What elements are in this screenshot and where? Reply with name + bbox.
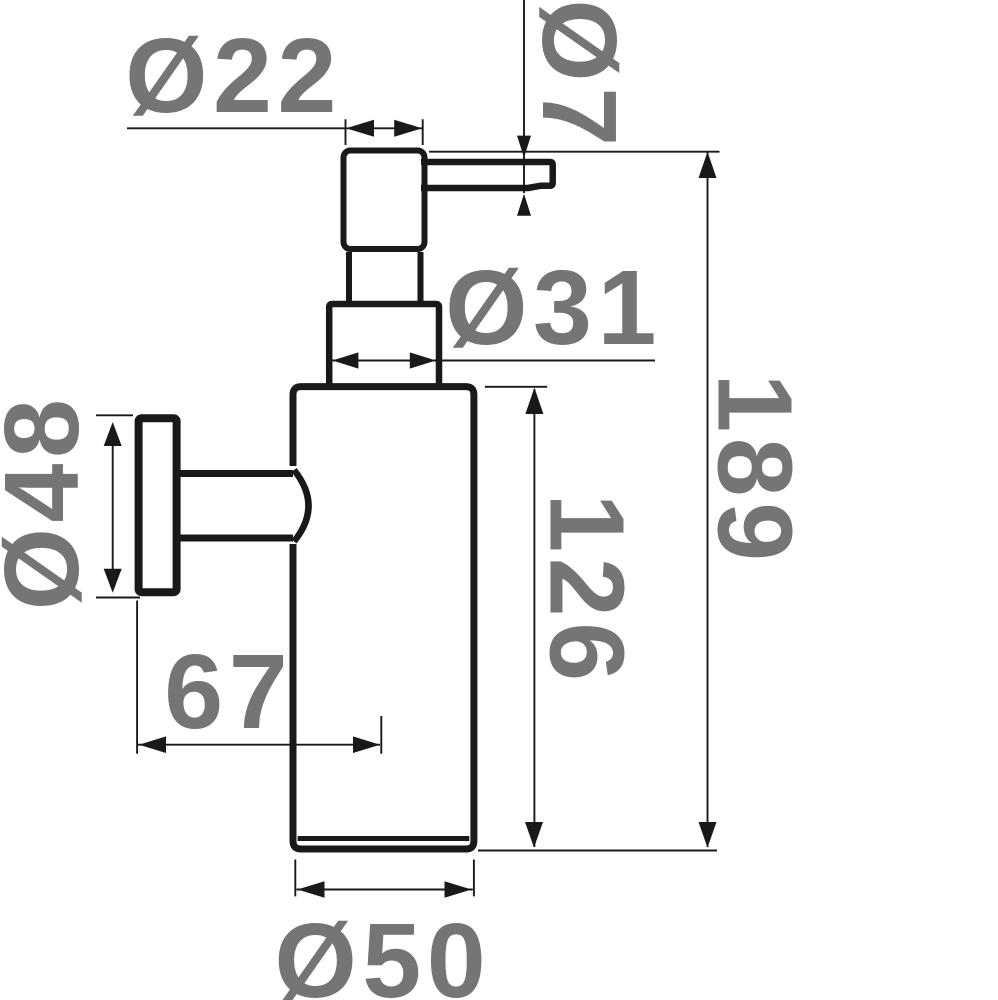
svg-text:189: 189 — [696, 373, 814, 566]
svg-text:126: 126 — [527, 493, 645, 686]
svg-text:Ø22: Ø22 — [125, 17, 342, 135]
svg-text:67: 67 — [164, 633, 293, 751]
svg-text:Ø48: Ø48 — [0, 394, 101, 611]
svg-text:Ø31: Ø31 — [445, 249, 662, 367]
svg-text:Ø50: Ø50 — [274, 902, 491, 1000]
svg-text:Ø7: Ø7 — [520, 0, 638, 152]
